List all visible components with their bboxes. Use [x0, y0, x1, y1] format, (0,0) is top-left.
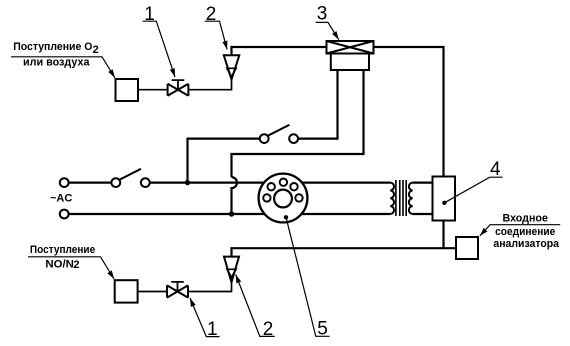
wire junction up to switch S2 line: [188, 139, 260, 183]
leader arrow to O2 inlet box: [11, 57, 115, 78]
callout 2 (bottom) leader: [236, 275, 275, 337]
callout 5 dot on motor: [284, 215, 288, 219]
svg-text:соединение: соединение: [495, 226, 555, 238]
svg-text:2: 2: [206, 4, 217, 25]
motor 5 center circle: [274, 190, 292, 208]
svg-text:NO/N: NO/N: [45, 258, 74, 270]
wire S1 to motor 5 (upper AC line): [150, 182, 268, 184]
wire hop over upper AC line: [232, 177, 238, 214]
svg-text:2: 2: [73, 259, 79, 271]
callout 2 (top) leader: [205, 21, 227, 49]
AC lower terminal circle: [60, 210, 69, 219]
motor 5 pin left: [263, 194, 270, 201]
svg-text:или воздуха: или воздуха: [23, 57, 90, 69]
rotameter 2 (bottom) funnel: [224, 257, 239, 283]
solenoid valve 3 actuator: [331, 54, 369, 71]
svg-text:анализатора: анализатора: [493, 238, 559, 250]
transformer T core lines: [396, 180, 406, 216]
bottom gas wire to analyzer square: [232, 248, 457, 255]
wire valve 1 (bottom) to NO/N2 box: [138, 291, 166, 293]
valve 1 (top) bowtie: [168, 84, 189, 96]
callout 5 leader with dot: [286, 217, 330, 336]
wire block 4 to analyzer line: [442, 221, 444, 249]
switch S2 right contact: [289, 134, 298, 143]
leader arrow to NO/N2 box: [28, 257, 114, 279]
rotameter 2 (top) outlet stub and wire to solenoid valve 3: [232, 47, 327, 54]
wire valve 1 to rotameter 2 (top): [189, 79, 231, 90]
motor 5 body circle: [259, 174, 308, 223]
wire motor 5 to transformer (lower): [298, 213, 390, 215]
leader arrow to analyzer square: [480, 225, 560, 236]
wire box to valve 1 (top): [138, 89, 167, 91]
wire rotameter 2 (bottom) to valve 1 (bottom): [189, 283, 232, 291]
wire S2 to valve 3 actuator left lead: [298, 70, 338, 139]
NO/N2 inlet connector box: [115, 280, 138, 302]
label: Поступление O2 или воздуха: [13, 41, 99, 69]
block 4 rectangle: [433, 177, 456, 221]
svg-text:Входное: Входное: [503, 212, 548, 224]
wire AC upper terminal to switch: [69, 182, 112, 184]
rotameter 2 (top) float: [227, 68, 236, 76]
svg-text:1: 1: [144, 4, 155, 25]
motor 5 pin upper-left: [268, 183, 275, 190]
analyzer connection square: [456, 237, 478, 259]
motor 5 pin right: [295, 194, 302, 201]
label: Входное соединение анализатора: [493, 212, 559, 250]
label: Поступление NO/N2: [30, 244, 95, 271]
junction dot lower AC line: [229, 211, 234, 216]
svg-text:Поступление О: Поступление О: [13, 41, 93, 53]
O2 inlet connector box: [116, 79, 139, 101]
transformer T primary winding: [390, 183, 394, 214]
callout 1 (top) leader: [143, 21, 175, 77]
svg-text:2: 2: [93, 44, 99, 56]
motor 5 pin upper-right: [290, 183, 297, 190]
valve 1 (bottom) bowtie: [167, 285, 188, 297]
svg-text:Поступление: Поступление: [30, 244, 95, 256]
wires transformer to block 4: [413, 183, 433, 214]
valve 1 handle: [172, 80, 185, 90]
transformer T secondary winding: [409, 183, 413, 214]
svg-text:3: 3: [317, 4, 328, 25]
switch S1 left contact: [111, 178, 120, 187]
switch S2 blade: [267, 125, 290, 136]
solenoid valve 3 body with X: [327, 41, 374, 54]
motor 5 pin top: [280, 179, 287, 186]
wire valve 3 to block 4: [374, 47, 444, 177]
switch S1 right contact: [141, 178, 150, 187]
wire motor 5 to transformer (upper): [298, 182, 390, 184]
switch S1 blade: [119, 169, 142, 180]
svg-text:~AC: ~AC: [50, 192, 72, 204]
rotameter 2 (bottom) float: [227, 269, 236, 277]
callout 1 (bottom) leader: [190, 298, 220, 337]
AC upper terminal circle: [60, 178, 69, 187]
wire valve 3 actuator right lead down and left: [232, 70, 364, 177]
callout 3 leader: [316, 22, 339, 39]
valve 1 (bottom) handle: [171, 282, 184, 292]
switch S2 left contact: [260, 134, 269, 143]
callout 4 leader with dot: [444, 177, 502, 203]
junction dot upper AC line: [185, 180, 190, 185]
rotameter 2 (top) funnel: [224, 55, 240, 79]
wire AC lower terminal to motor 5: [69, 213, 268, 215]
